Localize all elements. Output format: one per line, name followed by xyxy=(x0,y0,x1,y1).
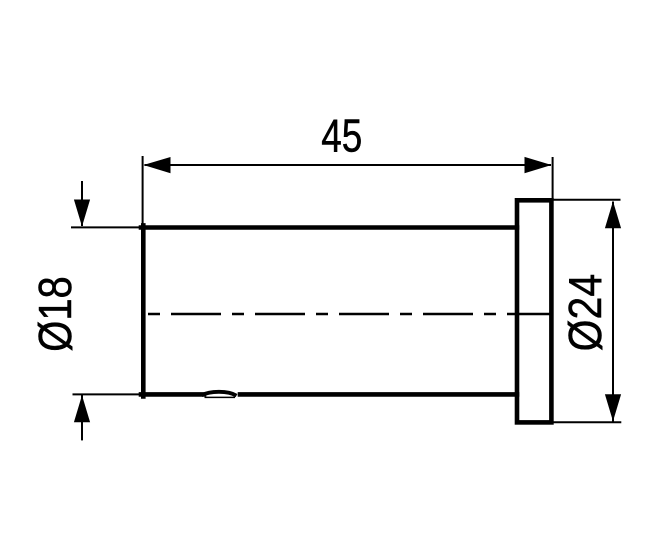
dimension Ø24: upper arrowhead (points up) xyxy=(605,201,621,228)
body bottom edge bump (mold mark) xyxy=(202,392,237,398)
dimension Ø18: top extension line xyxy=(71,226,146,228)
dimension Ø18: upper dimension line tail xyxy=(81,181,83,226)
dimension Ø24: lower arrowhead (points down) xyxy=(605,394,621,421)
flange outline xyxy=(517,200,551,422)
dimension Ø24: top extension line xyxy=(553,199,621,201)
dimension 45: right arrowhead xyxy=(525,157,552,173)
dimension 45: dimension line xyxy=(145,164,552,166)
dimension 45: left extension line xyxy=(142,156,144,226)
svg-text:Ø24: Ø24 xyxy=(559,274,611,352)
dimension 45: left arrowhead xyxy=(144,157,171,173)
dimension Ø24: dimension line xyxy=(612,202,614,422)
svg-text:45: 45 xyxy=(321,110,362,162)
dimension Ø24: bottom extension line xyxy=(553,421,621,423)
svg-text:Ø18: Ø18 xyxy=(29,276,81,352)
dimension Ø18: upper arrowhead (points down) xyxy=(74,200,90,227)
dimension Ø18: bottom extension line xyxy=(73,393,147,395)
dimension Ø18: lower dimension line tail xyxy=(81,395,83,440)
body cylinder outline xyxy=(141,225,517,396)
dimension Ø18: lower arrowhead (points up) xyxy=(74,395,90,422)
dimension 45: right extension line xyxy=(552,157,554,199)
centerline (dash-dot) xyxy=(143,313,552,315)
